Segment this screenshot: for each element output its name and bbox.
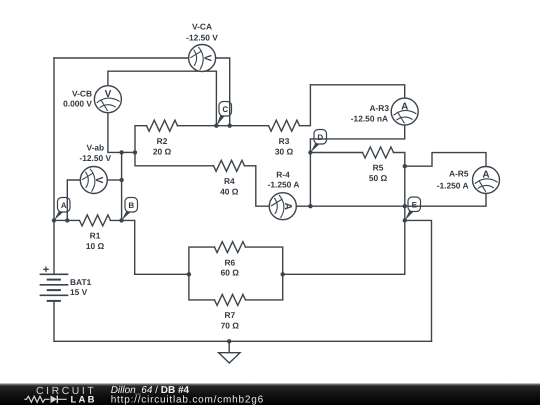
wire node E right branch down to bottom rail — [405, 220, 432, 341]
wire R2 left corner up to R2 — [135, 126, 147, 153]
svg-text:40 Ω: 40 Ω — [220, 186, 239, 196]
wire A-R3 loop top — [310, 85, 404, 98]
wire junction to A-R5 top terminal — [405, 153, 486, 167]
svg-text:20 Ω: 20 Ω — [153, 146, 172, 156]
junction R-4 right — [308, 204, 312, 208]
voltmeter V-ab — [80, 167, 107, 194]
resistor R5 — [363, 147, 394, 183]
wire V-CA right terminal to node C — [216, 58, 230, 126]
ammeter A-R3 — [391, 98, 418, 125]
wire R6 branch top — [189, 247, 215, 274]
junction V-ab right — [119, 178, 123, 182]
wire ground stem — [228, 341, 230, 352]
junction node A — [52, 218, 56, 222]
wire node A rail through R1 row — [54, 219, 80, 221]
svg-text:R3: R3 — [279, 136, 290, 146]
junction R6R7 right — [281, 272, 285, 276]
svg-text:-12.50 V: -12.50 V — [79, 153, 111, 163]
svg-text:70 Ω: 70 Ω — [221, 321, 240, 331]
svg-text:-1.250 A: -1.250 A — [268, 179, 300, 189]
svg-text:A: A — [401, 101, 408, 112]
junction ground — [227, 339, 231, 343]
ammeter R-4 — [269, 193, 296, 220]
node C — [216, 102, 231, 126]
svg-text:A: A — [482, 170, 489, 181]
junction R5 right — [403, 164, 407, 168]
wire R7 right side — [246, 274, 283, 300]
svg-text:-12.50 nA: -12.50 nA — [351, 113, 388, 123]
wire V-ab right terminal to B-net vertical — [107, 179, 121, 181]
wire A-R3 bottom back to node D — [310, 125, 404, 152]
svg-text:D: D — [317, 133, 323, 142]
junction node C left — [214, 124, 218, 128]
svg-text:V: V — [201, 55, 212, 62]
wire B-net vertical (junction to node B) — [121, 152, 123, 220]
wire R4 to corner — [245, 165, 256, 167]
wire top-left to V-CA left terminal — [54, 57, 189, 59]
svg-text:30 Ω: 30 Ω — [275, 146, 294, 156]
wire R2 corner down to R4 — [135, 152, 214, 165]
wire R6 right side — [246, 247, 283, 274]
junction node C right — [228, 124, 232, 128]
wire left vertical A-net (top corner to battery +) — [53, 58, 55, 274]
wire node D down to R-4 output wire — [309, 153, 311, 207]
junction V-ab left — [65, 218, 69, 222]
wire R3 right corner up to A-R3 loop — [300, 85, 311, 126]
wire junction down to node E — [404, 166, 406, 220]
svg-text:V: V — [93, 177, 104, 184]
svg-text:V-CB: V-CB — [72, 89, 92, 99]
svg-text:B: B — [128, 201, 134, 210]
svg-text:R-4: R-4 — [276, 169, 290, 179]
voltmeter V-CB — [94, 86, 121, 113]
wire battery negative stub — [53, 301, 55, 341]
node B — [122, 198, 138, 221]
ammeter A-R5 — [473, 167, 500, 194]
svg-text:A: A — [282, 203, 293, 210]
svg-text:V: V — [105, 89, 112, 100]
svg-text:V-ab: V-ab — [86, 143, 104, 153]
svg-text:A-R5: A-R5 — [449, 169, 469, 179]
wire R5 right corner down to junction — [394, 153, 405, 167]
svg-text:BAT1: BAT1 — [70, 277, 92, 287]
junction node E — [403, 218, 407, 222]
svg-text:R2: R2 — [157, 136, 168, 146]
svg-text:R4: R4 — [224, 176, 235, 186]
battery BAT1 15V — [40, 267, 92, 301]
junction R2 corner — [133, 150, 137, 154]
node E — [405, 197, 421, 220]
junction R6R7 left — [187, 272, 191, 276]
svg-text:50 Ω: 50 Ω — [369, 173, 388, 183]
svg-text:R6: R6 — [224, 257, 235, 267]
voltmeter V-CA — [189, 45, 216, 72]
wire R7 branch bottom — [189, 274, 215, 300]
wire node D to R5 — [310, 152, 362, 154]
svg-text:E: E — [412, 200, 418, 209]
svg-text:V-CA: V-CA — [192, 22, 212, 32]
resistor R1 — [80, 215, 111, 251]
svg-text:R5: R5 — [373, 163, 384, 173]
junction E crossing — [403, 204, 407, 208]
svg-text:R1: R1 — [90, 231, 101, 241]
svg-text:10 Ω: 10 Ω — [86, 241, 105, 251]
junction B-net upper — [119, 150, 123, 154]
svg-text:A-R3: A-R3 — [369, 103, 389, 113]
svg-text:-1.250 A: -1.250 A — [437, 181, 469, 191]
resistor R3 — [269, 120, 300, 156]
svg-text:LAB: LAB — [71, 394, 97, 405]
svg-text:C: C — [222, 105, 228, 114]
wire V-CB top terminal to node C — [108, 71, 216, 126]
resistor R6 — [215, 242, 246, 278]
wire V-ab left terminal to node A rail — [67, 180, 80, 220]
wire R2 to R3 through node C — [178, 125, 269, 127]
svg-text:-12.50 V: -12.50 V — [186, 32, 218, 42]
node A — [54, 198, 70, 221]
ground — [219, 353, 240, 363]
resistor R4 — [214, 160, 245, 196]
resistor R2 — [147, 120, 178, 156]
resistor R7 — [215, 294, 246, 330]
svg-text:R7: R7 — [224, 310, 235, 320]
wire R1 to node B and corner — [111, 220, 189, 274]
wire R-4 left terminal to R4 corner — [256, 166, 269, 206]
wire node E down to R6R7 right junction — [283, 220, 405, 274]
node D — [310, 130, 326, 153]
svg-text:15 V: 15 V — [70, 287, 88, 297]
svg-text:60 Ω: 60 Ω — [221, 268, 240, 278]
junction node D — [308, 150, 312, 154]
svg-text:0.000 V: 0.000 V — [63, 99, 92, 109]
footer bar with CircuitLab logo and caption — [0, 383, 540, 405]
svg-text:http://circuitlab.com/cmhb2g6: http://circuitlab.com/cmhb2g6 — [111, 395, 264, 406]
wire B-net junction to R2 corner junction — [122, 151, 135, 153]
junction node B — [119, 218, 123, 222]
wire A-R5 bottom terminal to R-4 right terminal — [296, 194, 486, 207]
wire V-CB bottom terminal to B-net — [108, 113, 122, 153]
svg-text:A: A — [61, 201, 67, 210]
wire bottom rail — [54, 340, 432, 342]
